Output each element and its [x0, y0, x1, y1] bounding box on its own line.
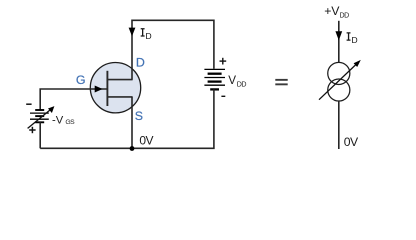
svg-text:D: D	[136, 56, 145, 70]
svg-text:GS: GS	[65, 119, 75, 126]
svg-text:V: V	[228, 74, 236, 87]
svg-text:-V: -V	[52, 115, 64, 127]
svg-text:+V: +V	[324, 4, 340, 18]
svg-text:DD: DD	[237, 80, 247, 88]
svg-text:G: G	[76, 73, 86, 87]
svg-text:D: D	[352, 35, 358, 45]
svg-text:DD: DD	[340, 12, 350, 20]
svg-text:0V: 0V	[344, 135, 359, 149]
svg-text:0V: 0V	[139, 134, 153, 148]
svg-text:S: S	[135, 109, 143, 123]
svg-text:D: D	[146, 31, 152, 41]
